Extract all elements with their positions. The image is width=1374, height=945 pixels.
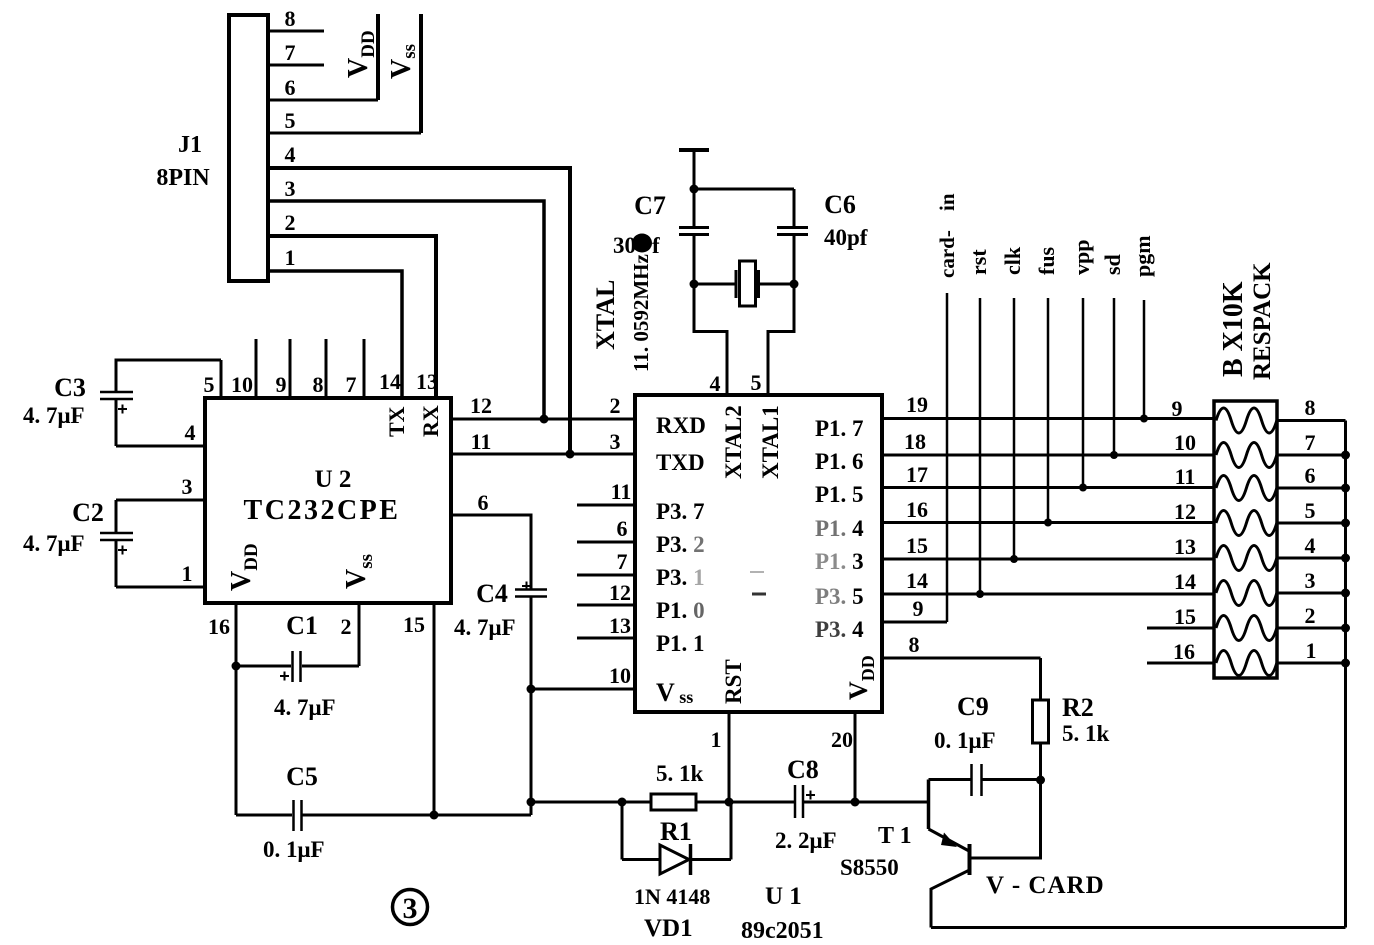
svg-text:TX: TX — [384, 406, 409, 437]
junction C4/R1 wire — [527, 798, 536, 807]
svg-text:VDD: VDD — [844, 655, 878, 700]
svg-text:9: 9 — [276, 372, 287, 397]
svg-text:15: 15 — [1174, 604, 1196, 629]
respack pin 1 wire — [1277, 662, 1346, 665]
svg-text:RESPACK: RESPACK — [1249, 262, 1276, 380]
junction crystal right — [790, 280, 799, 289]
J1 pin 5 wire to VSS rail — [268, 132, 421, 135]
respack pin 7 wire — [1277, 454, 1346, 457]
svg-text:4: 4 — [285, 142, 296, 167]
junction R1 right / pin1 — [725, 798, 734, 807]
svg-text:14: 14 — [906, 568, 928, 593]
svg-text:C8: C8 — [787, 755, 819, 784]
respack element 3 wave — [1216, 476, 1277, 501]
svg-text:C7: C7 — [634, 191, 666, 220]
U1 pin 7 wire — [577, 574, 635, 577]
T1 emitter diagonal with arrow — [929, 829, 970, 851]
svg-text:7: 7 — [285, 40, 296, 65]
svg-text:10: 10 — [231, 372, 253, 397]
U1 pin 18 wire to respack — [882, 454, 1214, 457]
svg-text:8: 8 — [285, 6, 296, 31]
U1 pin 9 wire to card-in column — [882, 621, 947, 624]
U1 pin 4 stub — [726, 331, 729, 395]
respack pin 15 wire — [1147, 627, 1214, 630]
svg-text:2: 2 — [610, 393, 621, 418]
svg-text:P3. 1: P3. 1 — [656, 565, 705, 590]
U2 pin 11 wire to U1 TXD pin 3 — [451, 453, 635, 456]
svg-text:6: 6 — [617, 516, 628, 541]
svg-text:3: 3 — [1305, 568, 1316, 593]
U1 pin 12 wire — [577, 604, 635, 607]
U1 pin 6 wire — [577, 541, 635, 544]
U1 pin 20 VDD stub — [854, 712, 857, 802]
VDD rail — [376, 14, 380, 100]
svg-text:4. 7μF: 4. 7μF — [274, 695, 336, 720]
wire top of C6 branch — [694, 188, 794, 191]
bus junction row5 — [1341, 519, 1350, 528]
svg-text:12: 12 — [1174, 499, 1196, 524]
junction pin20 — [851, 798, 860, 807]
svg-text:4. 7μF: 4. 7μF — [23, 403, 85, 428]
svg-text:R2: R2 — [1062, 693, 1094, 722]
V-CARD rail wire — [931, 926, 1346, 929]
U2 pin 1 wire — [116, 586, 205, 589]
junction crystal top — [690, 185, 699, 194]
U1 pin 10 Vss wire — [531, 688, 635, 691]
svg-text:fus: fus — [1034, 246, 1059, 275]
U2 pin 15 line down to C5 net — [433, 603, 436, 815]
svg-text:vpp: vpp — [1069, 240, 1094, 275]
U2 pin 12 wire to U1 RXD pin 2 — [451, 418, 635, 421]
svg-text:P3. 5: P3. 5 — [815, 584, 864, 609]
svg-text:P1. 6: P1. 6 — [815, 449, 864, 474]
svg-text:13: 13 — [416, 369, 438, 394]
svg-text:P1. 1: P1. 1 — [656, 631, 705, 656]
svg-text:9: 9 — [1172, 396, 1183, 421]
J1 pin 3 wire to node at RXD net — [268, 201, 544, 419]
svg-text:C5: C5 — [286, 762, 318, 791]
svg-text:XTAL1: XTAL1 — [758, 405, 783, 479]
svg-text:TXD: TXD — [656, 450, 705, 475]
respack pin 2 wire — [1277, 627, 1346, 630]
respack element 6 wave — [1216, 581, 1277, 606]
svg-text:4. 7μF: 4. 7μF — [23, 531, 85, 556]
bus junction row6 — [1341, 484, 1350, 493]
svg-text:3: 3 — [403, 892, 418, 925]
U2 pin 4 wire — [116, 445, 205, 448]
U1 pin 1 RST stub — [728, 712, 731, 802]
svg-text:12: 12 — [609, 580, 631, 605]
svg-text:15: 15 — [403, 612, 425, 637]
IC U2 TC232CPE — [205, 398, 451, 603]
junction C9/R2/base — [1036, 776, 1045, 785]
junction R1/VD1 left — [618, 798, 627, 807]
J1 pin 7 wire — [268, 64, 324, 67]
svg-text:S8550: S8550 — [840, 855, 899, 880]
respack pin 5 wire — [1277, 522, 1346, 525]
svg-text:16: 16 — [1173, 639, 1195, 664]
svg-text:14: 14 — [379, 369, 401, 394]
svg-text:XTAL2: XTAL2 — [721, 405, 746, 479]
U2 pin 2 stub — [358, 603, 361, 666]
junction TXD net — [566, 450, 575, 459]
sheet number circled 3 — [393, 890, 428, 925]
diode VD1 1N4148 — [621, 802, 624, 860]
IC U1 89c2051 — [635, 395, 882, 712]
svg-text:8PIN: 8PIN — [156, 165, 210, 191]
svg-text:18: 18 — [904, 429, 926, 454]
svg-text:U 1: U 1 — [765, 883, 802, 910]
svg-text:C9: C9 — [957, 692, 989, 721]
svg-text:2. 2μF: 2. 2μF — [775, 828, 837, 853]
U1 pin 8 wire to R2 — [882, 657, 1041, 660]
wire crystal to U1 pin 4 — [694, 284, 727, 395]
svg-text:6: 6 — [1305, 463, 1316, 488]
svg-text:9: 9 — [913, 596, 924, 621]
svg-text:16: 16 — [208, 614, 230, 639]
T1 base wire to R2/C9 node — [970, 780, 1041, 858]
svg-text:13: 13 — [1174, 534, 1196, 559]
svg-text:1N 4148: 1N 4148 — [634, 884, 710, 909]
respack pin 16 wire — [1147, 662, 1214, 665]
rst signal column — [979, 298, 982, 594]
respack element 8 wave — [1216, 651, 1277, 676]
svg-text:V ss: V ss — [656, 678, 693, 707]
svg-text:pgm: pgm — [1130, 235, 1155, 277]
svg-text:7: 7 — [617, 549, 628, 574]
svg-text:P1. 4: P1. 4 — [815, 516, 864, 541]
junction RXD net — [540, 415, 549, 424]
svg-text:4: 4 — [1305, 533, 1316, 558]
respack element 4 wave — [1216, 511, 1277, 536]
svg-text:Vss: Vss — [386, 44, 420, 79]
U2 pin 7 stub — [363, 339, 366, 398]
svg-text:VD1: VD1 — [644, 915, 693, 942]
VSS rail — [419, 14, 423, 133]
sd signal column — [1113, 298, 1116, 455]
svg-text:2: 2 — [341, 614, 352, 639]
pgm signal column — [1143, 300, 1146, 419]
U2 pin 10 stub — [255, 339, 258, 398]
U1 pin 15 wire to respack — [882, 558, 1214, 561]
bus junction row7 — [1341, 451, 1350, 460]
respack pin 8 wire — [1277, 419, 1346, 422]
J1 pin 8 wire — [268, 30, 324, 33]
svg-text:P3. 4: P3. 4 — [815, 617, 864, 642]
svg-text:J1: J1 — [178, 132, 202, 158]
svg-text:P1. 5: P1. 5 — [815, 482, 864, 507]
respack pin 4 wire — [1277, 557, 1346, 560]
svg-text:B X10K: B X10K — [1218, 281, 1249, 377]
wire crystal to U1 pin 5 — [768, 284, 794, 395]
svg-text:6: 6 — [478, 490, 489, 515]
U2 pin 9 stub — [289, 339, 292, 398]
capacitor C3 — [116, 360, 221, 392]
svg-text:5: 5 — [1305, 498, 1316, 523]
svg-text:13: 13 — [609, 613, 631, 638]
svg-text:8: 8 — [313, 372, 324, 397]
svg-text:C6: C6 — [824, 190, 856, 219]
svg-text:5: 5 — [285, 108, 296, 133]
J1 pin 6 wire to VDD rail — [268, 99, 378, 102]
svg-text:1: 1 — [711, 727, 722, 752]
respack element 5 wave — [1216, 546, 1277, 571]
J1 pin 2 wire to U2 pin 13 — [268, 236, 436, 398]
svg-text:T 1: T 1 — [878, 823, 912, 849]
capacitor C2 — [115, 500, 118, 533]
svg-text:7: 7 — [346, 372, 357, 397]
svg-text:P1. 0: P1. 0 — [656, 598, 705, 623]
svg-text:3: 3 — [285, 176, 296, 201]
svg-text:11: 11 — [611, 479, 632, 504]
svg-text:3: 3 — [182, 474, 193, 499]
J1 pin 1 wire to U2 pin 14 — [268, 271, 402, 398]
svg-text:2: 2 — [1305, 603, 1316, 628]
capacitor C5 — [236, 814, 292, 817]
svg-text:RXD: RXD — [656, 413, 706, 438]
svg-text:89c2051: 89c2051 — [741, 918, 824, 944]
svg-text:40pf: 40pf — [824, 225, 868, 250]
svg-text:C4: C4 — [476, 579, 508, 608]
U1 pin 19 wire to respack — [882, 417, 1214, 420]
capacitor C9 0.1uF — [929, 778, 972, 781]
U2 pin 5 stub — [220, 360, 223, 398]
svg-text:in: in — [935, 193, 959, 211]
svg-text:card-: card- — [935, 230, 959, 278]
capacitor C6 — [793, 189, 796, 227]
svg-text:20: 20 — [831, 727, 853, 752]
svg-text:P1. 7: P1. 7 — [815, 416, 864, 441]
smudge marks — [750, 571, 764, 573]
svg-text:12: 12 — [470, 393, 492, 418]
svg-text:XTAL: XTAL — [591, 280, 620, 350]
svg-text:3: 3 — [610, 429, 621, 454]
bus junction row1 — [1341, 659, 1350, 668]
svg-text:V - CARD: V - CARD — [986, 872, 1105, 899]
clk signal column — [1013, 298, 1016, 559]
U2 pin 8 stub — [325, 339, 328, 398]
svg-text:6: 6 — [285, 75, 296, 100]
svg-text:P3. 2: P3. 2 — [656, 532, 705, 557]
U1 pin 13 wire — [577, 637, 635, 640]
svg-text:1: 1 — [1306, 638, 1317, 663]
svg-text:5. 1k: 5. 1k — [1062, 721, 1110, 746]
U2 pin 3 wire — [116, 499, 205, 502]
capacitor C8 2.2uF — [794, 785, 797, 818]
svg-text:10: 10 — [609, 663, 631, 688]
svg-text:5. 1k: 5. 1k — [656, 761, 704, 786]
svg-text:1: 1 — [182, 561, 193, 586]
svg-text:1: 1 — [285, 245, 296, 270]
resistor pack B X10K RESPACK — [1214, 401, 1277, 678]
svg-text:11: 11 — [1175, 464, 1196, 489]
respack pin 3 wire — [1277, 592, 1346, 595]
respack element 2 wave — [1216, 443, 1277, 468]
svg-text:P1. 3: P1. 3 — [815, 549, 864, 574]
svg-text:C1: C1 — [286, 611, 318, 640]
svg-text:14: 14 — [1174, 569, 1196, 594]
svg-text:clk: clk — [1000, 246, 1025, 275]
svg-text:10: 10 — [1174, 430, 1196, 455]
svg-text:TC232CPE: TC232CPE — [244, 495, 401, 526]
svg-text:4: 4 — [185, 420, 196, 445]
svg-text:C2: C2 — [72, 498, 104, 527]
respack element 7 wave — [1216, 616, 1277, 641]
fus signal column — [1047, 298, 1050, 523]
svg-text:rst: rst — [966, 249, 991, 275]
U2 pin 6 wire — [451, 515, 531, 589]
svg-text:VDD: VDD — [343, 30, 379, 78]
respack element 1 wave — [1216, 408, 1277, 433]
junction pin15/C5 — [430, 811, 439, 820]
capacitor C7 — [693, 189, 696, 227]
svg-text:5: 5 — [204, 372, 215, 397]
resistor R1 5.1k — [651, 794, 696, 810]
svg-text:U 2: U 2 — [315, 466, 352, 493]
capacitor C1 — [236, 665, 291, 668]
svg-text:f: f — [652, 233, 660, 258]
respack pin 6 wire — [1277, 487, 1346, 490]
T1 base bar — [968, 844, 972, 875]
U1 pin 11 wire — [577, 504, 635, 507]
U2 pin 16 line down to C5 net — [235, 603, 238, 815]
vpp signal column — [1082, 298, 1085, 488]
T1 emitter node line — [927, 780, 931, 830]
svg-text:5: 5 — [751, 370, 762, 395]
svg-text:0. 1μF: 0. 1μF — [263, 837, 325, 862]
svg-text:19: 19 — [906, 392, 928, 417]
svg-text:8: 8 — [1305, 395, 1316, 420]
svg-text:R1: R1 — [660, 817, 692, 846]
U1 pin 16 wire to respack — [882, 521, 1214, 524]
U1 pin 5 stub — [767, 331, 770, 395]
card-in signal column — [946, 293, 949, 622]
svg-text:Vss: Vss — [341, 554, 377, 589]
T1 collector diagonal — [931, 870, 970, 928]
svg-text:4: 4 — [710, 371, 721, 396]
RST net wire — [531, 801, 795, 804]
common bus right — [1344, 421, 1347, 928]
svg-text:C3: C3 — [54, 373, 86, 402]
bus junction row4 — [1341, 554, 1350, 563]
connector J1 — [229, 15, 268, 281]
svg-text:VDD: VDD — [226, 543, 262, 591]
capacitor C4 — [515, 588, 547, 591]
J1 pin 4 wire to node at TXD net — [268, 168, 570, 454]
svg-text:17: 17 — [906, 462, 928, 487]
svg-text:P3. 7: P3. 7 — [656, 499, 705, 524]
svg-text:15: 15 — [906, 533, 928, 558]
bus junction row3 — [1341, 589, 1350, 598]
svg-text:16: 16 — [906, 497, 928, 522]
svg-text:0. 1μF: 0. 1μF — [934, 728, 996, 753]
svg-text:4. 7μF: 4. 7μF — [454, 615, 516, 640]
bus junction row2 — [1341, 624, 1350, 633]
junction crystal left — [690, 280, 699, 289]
svg-text:RX: RX — [418, 405, 443, 437]
svg-text:11. 0592MHz: 11. 0592MHz — [629, 254, 653, 372]
junction C4/Vss wire — [527, 685, 536, 694]
svg-text:sd: sd — [1100, 254, 1125, 275]
resistor R2 5.1k — [1039, 658, 1042, 700]
U1 pin 14 wire to respack — [882, 593, 1214, 596]
svg-text:RST: RST — [721, 659, 746, 704]
junction pin16/C1 — [232, 662, 241, 671]
svg-text:2: 2 — [285, 210, 296, 235]
U1 pin 17 wire to respack — [882, 486, 1214, 489]
crystal XTAL 11.0592MHz — [694, 283, 735, 286]
svg-text:7: 7 — [1305, 430, 1316, 455]
svg-text:8: 8 — [909, 632, 920, 657]
power tee above crystal — [679, 148, 709, 152]
svg-text:11: 11 — [471, 429, 492, 454]
